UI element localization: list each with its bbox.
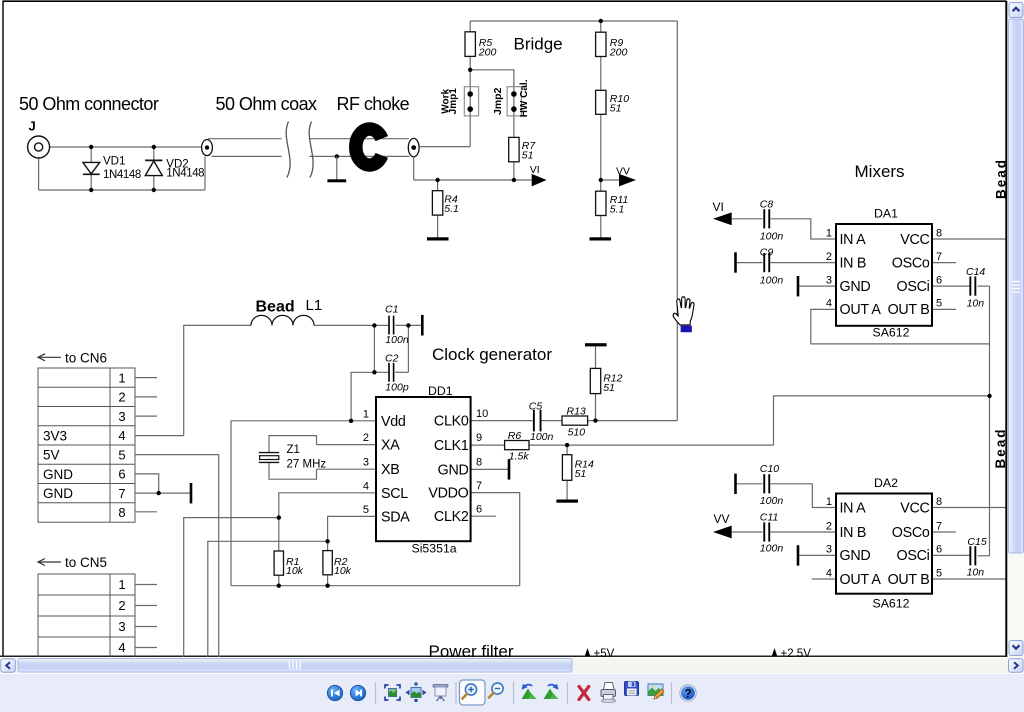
- svg-text:XB: XB: [381, 462, 399, 478]
- capacitor C8: [763, 209, 770, 228]
- svg-text:8: 8: [118, 505, 125, 520]
- wire J to coax: [50, 146, 203, 148]
- icon save (floppy): [625, 682, 639, 696]
- wire Z1 loop: [269, 436, 317, 453]
- svg-text:3: 3: [826, 274, 832, 286]
- icon rotate left: [522, 684, 537, 699]
- icon first page: [327, 685, 342, 700]
- wire C8 to DA1 pin1: [771, 219, 837, 239]
- svg-text:50 Ohm coax: 50 Ohm coax: [216, 94, 318, 114]
- svg-text:8: 8: [936, 496, 942, 508]
- wire C2 left lead: [374, 371, 388, 373]
- wire Vdd rail down: [230, 421, 232, 586]
- svg-text:5V: 5V: [43, 448, 60, 463]
- svg-text:100n: 100n: [760, 230, 784, 242]
- svg-text:4: 4: [826, 298, 832, 310]
- wire C1C2 left branch: [373, 325, 375, 372]
- svg-text:OSCi: OSCi: [897, 279, 930, 295]
- svg-text:DA1: DA1: [874, 206, 898, 220]
- svg-text:IN A: IN A: [840, 232, 867, 248]
- svg-text:200: 200: [478, 46, 497, 58]
- wire mixer drive net: [774, 396, 990, 445]
- wire ground return bottom: [39, 189, 205, 191]
- svg-text:27 MHz: 27 MHz: [287, 458, 327, 470]
- separator: [513, 682, 515, 704]
- ground bar (coax shield): [327, 179, 346, 182]
- svg-text:C1: C1: [385, 303, 398, 315]
- arrow VV left: [713, 526, 732, 539]
- arrow VI: [532, 174, 547, 187]
- wire XA lead: [317, 444, 377, 446]
- wire bridge top rail: [470, 20, 677, 22]
- icon close (red X): [579, 687, 589, 700]
- svg-text:100n: 100n: [760, 495, 784, 507]
- ground bar R11: [590, 237, 612, 240]
- RF choke toroid: [356, 129, 382, 165]
- svg-text:OUT B: OUT B: [888, 572, 930, 588]
- svg-text:C5: C5: [529, 400, 543, 412]
- wire C14 to clock bus: [978, 285, 990, 287]
- wire C9 bar to C9: [736, 262, 763, 264]
- icon fit page: [385, 685, 400, 700]
- wire R12 top: [595, 346, 597, 368]
- coax cable body: [208, 139, 410, 157]
- svg-text:GND: GND: [43, 467, 73, 482]
- wire choke out to jumper: [419, 146, 470, 148]
- coax left end: [202, 140, 213, 156]
- wire C1C2 right branch: [407, 325, 409, 372]
- svg-text:VI: VI: [530, 164, 540, 176]
- svg-text:CLK2: CLK2: [434, 509, 469, 525]
- connector table CN5: [38, 574, 135, 657]
- plane bar C10: [734, 474, 737, 494]
- svg-text:Si5351a: Si5351a: [412, 541, 457, 555]
- svg-text:1N4148: 1N4148: [166, 167, 204, 179]
- svg-text:XA: XA: [381, 438, 400, 454]
- horizontal scrollbar: [0, 658, 1024, 673]
- wire 3V3 riser: [184, 325, 251, 435]
- jumper Jmp1: [464, 87, 478, 116]
- node dot R1 bottom: [277, 584, 281, 588]
- coax shield ground dot: [335, 154, 339, 158]
- plane bar DA2 GND: [797, 545, 800, 565]
- svg-text:Z1: Z1: [287, 444, 300, 456]
- node dot C1 right: [406, 323, 410, 327]
- wire DA1 OUT B stub: [932, 308, 956, 310]
- IC DD1: [376, 397, 471, 541]
- svg-text:R13: R13: [567, 405, 586, 417]
- separator: [567, 682, 569, 704]
- wire C2 to Vdd rail: [351, 372, 374, 421]
- node dot J-VD1 top: [89, 145, 93, 149]
- ground bar R4: [427, 237, 449, 240]
- svg-text:51: 51: [575, 468, 587, 480]
- wire R14 top: [566, 445, 568, 455]
- svg-text:2: 2: [363, 432, 369, 444]
- capacitor C5: [533, 410, 542, 432]
- svg-text:5.1: 5.1: [610, 204, 625, 216]
- plane bar C1: [421, 315, 424, 336]
- svg-text:HW Cal.: HW Cal.: [519, 79, 530, 117]
- svg-text:1: 1: [118, 370, 125, 385]
- svg-text:VCC: VCC: [900, 232, 929, 248]
- separator: [671, 682, 673, 704]
- node dot R7 bottom: [512, 178, 516, 182]
- svg-text:2: 2: [826, 520, 832, 532]
- arrow VI left: [713, 212, 732, 225]
- wire J ground return left: [38, 158, 40, 190]
- svg-text:8: 8: [936, 227, 942, 239]
- resistor R7: [509, 137, 519, 161]
- page border left: [2, 1, 4, 657]
- svg-text:3: 3: [118, 409, 125, 424]
- node dot SDA branch: [325, 539, 329, 543]
- CN5 pin stubs: [135, 584, 157, 586]
- svg-text:200: 200: [609, 46, 628, 58]
- svg-text:5: 5: [936, 298, 942, 310]
- page border bottom: [0, 655, 1007, 657]
- svg-text:7: 7: [476, 480, 482, 492]
- svg-text:to CN6: to CN6: [65, 350, 107, 365]
- svg-text:Jmp1: Jmp1: [448, 88, 459, 115]
- wire DA1 OSCi to C14: [932, 285, 970, 287]
- wire CLK0 to C5: [471, 420, 533, 422]
- svg-text:Jmp2: Jmp2: [492, 87, 504, 115]
- resistor R10: [596, 90, 606, 114]
- icon last page: [350, 685, 365, 700]
- svg-text:C2: C2: [385, 352, 399, 364]
- node dot bridge top R9: [599, 19, 603, 23]
- diode VD1: [83, 162, 100, 174]
- svg-text:J: J: [29, 119, 36, 134]
- DA1 pin names: [840, 232, 930, 318]
- wire R9 to R10: [600, 57, 602, 91]
- node dot mixer drive: [987, 394, 991, 398]
- capacitor C1: [388, 316, 394, 335]
- svg-text:3: 3: [118, 619, 125, 634]
- wire SCL branch left: [184, 518, 279, 657]
- svg-text:6: 6: [936, 544, 942, 556]
- resistor R4: [432, 191, 442, 215]
- wire CN6 GND pins join: [135, 474, 159, 493]
- DD1 pin names: [381, 414, 469, 526]
- toolbar: [0, 673, 1024, 712]
- svg-text:RF choke: RF choke: [337, 94, 410, 114]
- icon presentation screen: [433, 685, 448, 702]
- icon fit width: [406, 683, 427, 703]
- svg-text:6: 6: [936, 274, 942, 286]
- coax right end: [408, 138, 419, 156]
- wire C2 right lead: [395, 371, 408, 373]
- wire gnd bar to DA2 pin3: [798, 554, 836, 556]
- wire ground return to coax shield: [204, 157, 206, 191]
- svg-text:100n: 100n: [530, 431, 554, 443]
- resistor R13: [562, 416, 588, 425]
- wire DA2 VCC to edge: [932, 507, 1006, 509]
- icon zoom in (pressed): [460, 680, 486, 705]
- resistor R12: [590, 368, 600, 393]
- svg-text:VCC: VCC: [900, 500, 929, 516]
- wire C10 to DA2 pin1: [771, 484, 837, 508]
- icon print: [601, 683, 616, 703]
- svg-text:SDA: SDA: [381, 509, 410, 525]
- svg-text:SA612: SA612: [873, 326, 910, 340]
- svg-text:3: 3: [826, 544, 832, 556]
- capacitor C14: [969, 277, 976, 296]
- wire DA1 VCC to edge: [932, 238, 1006, 240]
- svg-text:Power filter: Power filter: [429, 642, 514, 658]
- wire R10 to VV line: [600, 114, 602, 191]
- svg-text:51: 51: [603, 382, 615, 394]
- svg-text:10n: 10n: [967, 297, 985, 309]
- wire DA2 pin4 stub: [812, 578, 836, 580]
- power bar R12: [585, 343, 607, 346]
- wire VD2 bottom: [153, 176, 155, 190]
- svg-text:Mixers: Mixers: [855, 162, 905, 181]
- svg-text:Bridge: Bridge: [514, 35, 563, 54]
- wire R13 to clock feed: [588, 420, 678, 422]
- wire C9 to DA1 pin2: [771, 262, 837, 264]
- svg-text:510: 510: [568, 426, 586, 438]
- page border right: [1005, 1, 1007, 657]
- wire XB lead: [317, 468, 377, 470]
- resistor R2: [323, 551, 332, 575]
- capacitor C11: [763, 522, 770, 541]
- plane bar CN6 gnd: [190, 483, 193, 503]
- node dot CN6 gnd: [157, 491, 161, 495]
- icon export image: [648, 684, 664, 699]
- svg-text:VDDO: VDDO: [428, 486, 468, 502]
- IC DA1: [836, 224, 932, 326]
- label to CN5: [38, 559, 61, 566]
- svg-text:Clock generator: Clock generator: [432, 345, 552, 364]
- svg-text:9: 9: [476, 432, 482, 444]
- CN6 pin numbers: [118, 370, 125, 520]
- plane bar DD1 GND: [508, 459, 511, 479]
- icon rotate right: [544, 684, 559, 699]
- resistor R5: [465, 32, 475, 57]
- wire clock feed vertical: [676, 21, 678, 421]
- wire clock bus to C15: [978, 555, 990, 557]
- wire R1 bottom: [278, 575, 280, 586]
- wire R2 bottom: [327, 575, 329, 586]
- wire DA2 OSCo stub: [932, 531, 956, 533]
- CN6 pin stubs: [135, 377, 157, 379]
- wire C10 bar to C10: [736, 483, 763, 485]
- page border top: [3, 0, 1007, 2]
- plane bar C9: [734, 252, 737, 272]
- svg-text:C9: C9: [760, 246, 774, 258]
- svg-text:IN B: IN B: [840, 525, 867, 541]
- wire VV arrow to C11: [732, 531, 763, 533]
- label +5V: [585, 648, 590, 656]
- svg-text:C14: C14: [966, 266, 985, 278]
- svg-text:10: 10: [476, 408, 488, 420]
- wire CLK1 to R6: [471, 444, 505, 446]
- wire VD1 bottom: [90, 175, 92, 191]
- svg-text:C10: C10: [760, 463, 779, 475]
- svg-text:1.5k: 1.5k: [509, 450, 530, 462]
- node dot R5 bottom: [468, 68, 472, 72]
- wire R12 bottom: [595, 394, 597, 421]
- svg-text:10k: 10k: [334, 565, 352, 577]
- jumper Jmp2: [507, 87, 521, 116]
- node dot R2 bottom: [325, 584, 329, 588]
- svg-text:1: 1: [826, 227, 832, 239]
- CN6 net labels: [43, 428, 73, 501]
- svg-text:5: 5: [363, 504, 369, 516]
- svg-text:GND: GND: [438, 462, 469, 478]
- svg-text:DA2: DA2: [874, 476, 898, 490]
- resistor R14: [562, 455, 571, 481]
- label to CN6: [38, 354, 61, 361]
- svg-text:100p: 100p: [385, 381, 409, 393]
- icon help: [680, 685, 696, 701]
- svg-text:7: 7: [936, 251, 942, 263]
- wire VD2 top: [153, 147, 155, 160]
- wire DA2 OSCi to C15: [932, 554, 970, 556]
- wire shield to ground: [336, 156, 338, 179]
- svg-text:2: 2: [118, 598, 125, 613]
- wire to Jmp2: [470, 70, 514, 138]
- connector J: [28, 136, 50, 158]
- svg-text:8: 8: [476, 456, 482, 468]
- capacitor C9: [763, 253, 770, 272]
- node dot VD2 top: [152, 145, 156, 149]
- svg-text:SCL: SCL: [381, 486, 408, 502]
- svg-text:L1: L1: [306, 297, 323, 314]
- svg-text:R6: R6: [508, 430, 522, 442]
- wire SCL: [279, 493, 376, 551]
- resistor R11: [596, 191, 606, 215]
- DA2 pin numbers: [826, 496, 942, 580]
- IC DA2: [836, 494, 932, 594]
- cursor hand: [673, 297, 694, 333]
- svg-text:C8: C8: [760, 198, 774, 210]
- svg-text:10n: 10n: [967, 567, 985, 579]
- svg-text:5: 5: [936, 567, 942, 579]
- svg-text:Bead: Bead: [994, 158, 1009, 199]
- coax break marks: [286, 122, 313, 178]
- svg-text:4: 4: [118, 428, 125, 443]
- svg-text:?: ?: [684, 689, 691, 701]
- svg-text:DD1: DD1: [428, 384, 453, 398]
- wire SDA: [328, 516, 376, 550]
- inductor L1: [251, 315, 314, 325]
- node dot VD2 bottom: [152, 188, 156, 192]
- node dot R13 right: [593, 418, 597, 422]
- svg-text:C11: C11: [760, 511, 778, 523]
- wire VI line: [414, 179, 532, 181]
- wire R4 stub: [437, 180, 439, 191]
- svg-text:VD1: VD1: [103, 156, 125, 168]
- resistor R9: [596, 32, 606, 56]
- wire choke out down: [413, 157, 415, 180]
- node dot Vdd: [349, 419, 353, 423]
- wire R5 bottom: [469, 56, 471, 146]
- vertical scrollbar: [1008, 0, 1024, 658]
- wire R6 to mixer net: [529, 444, 774, 446]
- svg-text:7: 7: [936, 520, 942, 532]
- wire VI arrow to C8: [732, 218, 763, 220]
- DA2 pin names: [840, 500, 930, 588]
- svg-text:6: 6: [476, 504, 482, 516]
- svg-text:IN A: IN A: [840, 500, 867, 516]
- svg-text:50 Ohm connector: 50 Ohm connector: [19, 94, 159, 114]
- wire gnd bar to DA1 pin3: [798, 285, 836, 287]
- svg-text:4: 4: [363, 480, 369, 492]
- svg-text:1N4148: 1N4148: [103, 169, 141, 181]
- svg-text:CLK0: CLK0: [434, 414, 469, 430]
- capacitor C15: [969, 546, 976, 565]
- resistor R6: [505, 441, 529, 450]
- wire C11 to DA2 pin2: [771, 531, 837, 533]
- wire power bottom rail: [231, 585, 520, 587]
- node dot R4: [435, 178, 439, 182]
- svg-text:+5V: +5V: [594, 648, 615, 658]
- capacitor C2: [388, 363, 394, 382]
- svg-text:6: 6: [118, 467, 125, 482]
- svg-text:OSCo: OSCo: [892, 255, 930, 271]
- svg-text:C15: C15: [967, 536, 986, 548]
- svg-text:SA612: SA612: [873, 597, 910, 611]
- arrow VV: [619, 174, 636, 187]
- wire R14 bottom: [566, 480, 568, 499]
- wire SDA branch left: [208, 541, 328, 657]
- node dot L1-C1: [372, 323, 376, 327]
- svg-text:2: 2: [118, 390, 125, 405]
- svg-text:5: 5: [118, 447, 125, 462]
- svg-text:CLK1: CLK1: [434, 438, 469, 454]
- DD1 pin numbers: [363, 408, 488, 516]
- svg-text:OUT B: OUT B: [888, 302, 930, 318]
- wire DA1 pin4 OUT A routing: [811, 309, 990, 344]
- svg-text:Bead: Bead: [993, 427, 1008, 468]
- node dot C2 left: [372, 370, 376, 374]
- plane bar DA1 GND: [797, 276, 800, 296]
- svg-text:1: 1: [363, 408, 369, 420]
- svg-text:100n: 100n: [760, 542, 784, 554]
- separator: [375, 682, 377, 704]
- wire 5V rail down: [135, 455, 219, 657]
- wire L1 to C1: [314, 324, 388, 326]
- wire R9 top stub: [600, 21, 602, 32]
- svg-text:1: 1: [118, 577, 125, 592]
- wire R11 to ground: [600, 216, 602, 238]
- diode VD2: [145, 160, 162, 175]
- separator: [455, 682, 457, 704]
- wire rail to VDDO: [471, 493, 520, 586]
- svg-text:7: 7: [118, 486, 125, 501]
- icon zoom out: [489, 683, 503, 698]
- wire R5 top stub: [469, 21, 471, 32]
- svg-text:51: 51: [610, 103, 622, 115]
- node dot VD1 bottom: [89, 188, 93, 192]
- node dot VV: [599, 178, 603, 182]
- svg-text:10k: 10k: [286, 565, 304, 577]
- wire clock bus vertical: [989, 286, 991, 556]
- svg-text:+2.5V: +2.5V: [781, 648, 812, 658]
- svg-text:100n: 100n: [760, 274, 784, 286]
- ground bar R14: [556, 500, 578, 503]
- svg-text:4: 4: [826, 567, 832, 579]
- svg-text:3: 3: [363, 457, 369, 469]
- svg-text:GND: GND: [840, 548, 871, 564]
- wire C1 to plane bar: [395, 324, 421, 326]
- svg-text:4: 4: [118, 640, 125, 655]
- wire C5 to R13: [542, 420, 563, 422]
- svg-text:Vdd: Vdd: [381, 414, 406, 430]
